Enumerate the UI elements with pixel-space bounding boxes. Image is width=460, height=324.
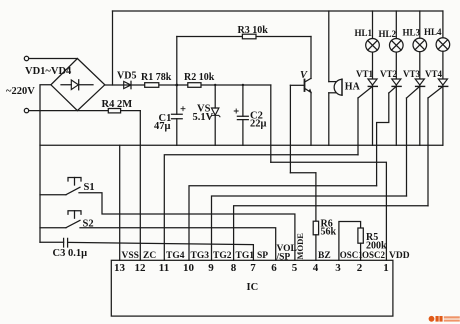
svg-text:4: 4 xyxy=(313,262,319,274)
svg-text:HL3: HL3 xyxy=(403,28,421,38)
svg-text:9: 9 xyxy=(208,262,214,274)
svg-text:VDD: VDD xyxy=(389,251,410,261)
svg-text:47μ: 47μ xyxy=(154,121,171,132)
svg-text:TG3: TG3 xyxy=(191,251,210,261)
svg-text:3: 3 xyxy=(335,262,341,274)
svg-text:2: 2 xyxy=(357,262,363,274)
svg-text:HL2: HL2 xyxy=(379,29,397,39)
svg-text:OSC1: OSC1 xyxy=(340,250,364,260)
svg-text:VD1~VD4: VD1~VD4 xyxy=(25,66,72,77)
svg-text:6: 6 xyxy=(271,262,277,274)
svg-text:R3 10k: R3 10k xyxy=(238,25,269,36)
svg-text:VT1: VT1 xyxy=(356,69,374,79)
svg-text:56k: 56k xyxy=(321,227,337,238)
svg-text:VSS: VSS xyxy=(122,251,139,261)
svg-text:IC: IC xyxy=(247,282,259,293)
svg-text:HL4: HL4 xyxy=(424,27,442,37)
svg-text:13: 13 xyxy=(114,262,126,274)
svg-text:R2 10k: R2 10k xyxy=(184,72,215,83)
svg-text:S2: S2 xyxy=(83,219,94,230)
svg-text:5: 5 xyxy=(292,262,298,274)
svg-text:R4 2M: R4 2M xyxy=(102,99,133,110)
svg-text:~220V: ~220V xyxy=(6,86,35,97)
svg-text:C3 0.1μ: C3 0.1μ xyxy=(53,248,88,259)
svg-text:5.1V: 5.1V xyxy=(193,112,214,123)
svg-text:VT2: VT2 xyxy=(380,69,398,79)
svg-text:22μ: 22μ xyxy=(250,119,267,130)
svg-text:V: V xyxy=(300,70,308,81)
svg-text:VT4: VT4 xyxy=(425,69,443,79)
svg-text:OSC2: OSC2 xyxy=(362,250,386,260)
svg-text:R1 78k: R1 78k xyxy=(141,72,172,83)
svg-text:TG4: TG4 xyxy=(166,251,185,261)
svg-text:SP: SP xyxy=(257,251,268,261)
svg-text:7: 7 xyxy=(250,262,256,274)
svg-text:11: 11 xyxy=(159,262,169,274)
svg-text:TG2: TG2 xyxy=(213,251,232,261)
svg-text:VT3: VT3 xyxy=(403,69,421,79)
svg-text:HL1: HL1 xyxy=(355,28,373,38)
svg-text:8: 8 xyxy=(231,262,237,274)
svg-text:HA: HA xyxy=(345,82,361,93)
svg-text:VD5: VD5 xyxy=(117,71,136,82)
svg-text:/SP: /SP xyxy=(276,253,291,263)
svg-text:TG1: TG1 xyxy=(236,251,255,261)
svg-text:10: 10 xyxy=(183,262,195,274)
svg-text:S1: S1 xyxy=(84,182,95,193)
svg-text:BZ: BZ xyxy=(318,251,331,261)
svg-text:1: 1 xyxy=(383,262,389,274)
svg-text:MODE: MODE xyxy=(295,233,305,260)
svg-text:ZC: ZC xyxy=(143,251,156,261)
svg-text:12: 12 xyxy=(135,262,147,274)
